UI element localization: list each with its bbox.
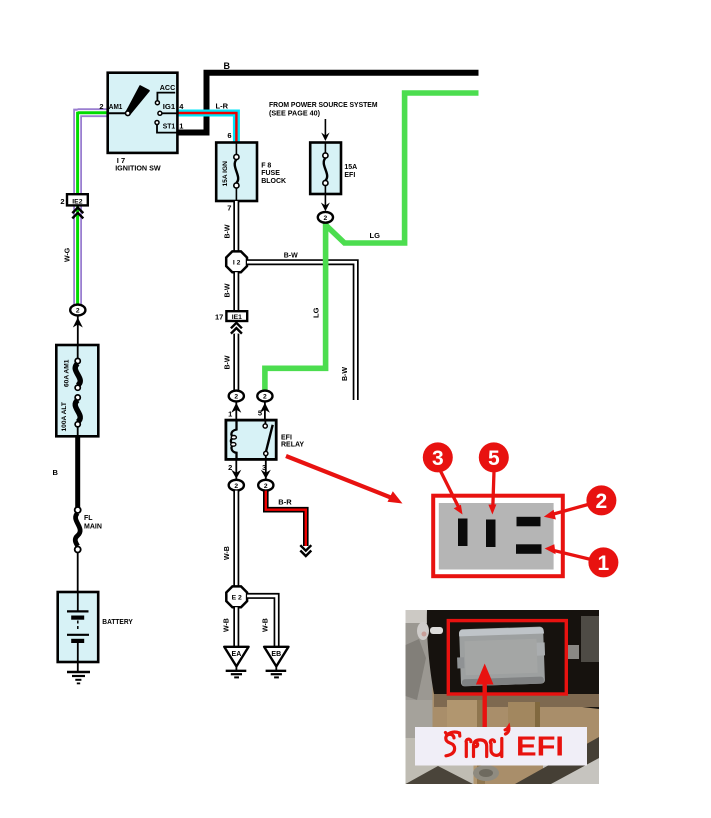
svg-text:2: 2 <box>324 215 328 222</box>
svg-text:EFI: EFI <box>281 434 292 441</box>
wire from 15A EFI down to junction <box>324 194 326 206</box>
wire LG green (junction down, across to relay pin 5) <box>265 222 326 392</box>
callout circle 1 <box>588 547 618 577</box>
relay pin5 junction ellipse 2 <box>257 391 272 402</box>
photo red frame around relay <box>448 621 566 694</box>
wire pin5 junction to relay <box>264 401 266 420</box>
relay pin diagram gray body <box>439 503 554 570</box>
svg-text:IE2: IE2 <box>72 199 82 206</box>
photo of engine bay <box>406 610 600 784</box>
connector IE2 box <box>67 194 88 205</box>
fusible link FL MAIN <box>75 507 81 513</box>
ground EB triangle <box>264 647 288 667</box>
wire W-B from pin2 junction to E2 <box>233 491 239 587</box>
svg-text:2: 2 <box>596 490 608 513</box>
callout circle 3 <box>423 442 453 472</box>
terminal ST1 contact and bracket <box>157 125 177 133</box>
photo white item left <box>417 622 429 640</box>
svg-text:2: 2 <box>234 483 238 490</box>
svg-text:MAIN: MAIN <box>84 523 102 530</box>
terminal IG1 contact <box>162 112 178 114</box>
svg-text:B-W: B-W <box>342 367 349 381</box>
svg-text:BLOCK: BLOCK <box>261 178 286 185</box>
svg-text:60A AM1: 60A AM1 <box>63 359 70 387</box>
junction E2 octagon <box>226 586 247 607</box>
relay coil <box>231 420 237 460</box>
callout line to pin 1 <box>551 550 591 560</box>
svg-text:2: 2 <box>76 308 80 315</box>
photo tan floor details <box>434 694 599 707</box>
thai sara e <box>466 739 471 756</box>
svg-text:15A IGN: 15A IGN <box>222 161 229 187</box>
wire AM1 stub inside switch <box>108 112 127 114</box>
fuse 15A IGN <box>235 143 237 155</box>
photo left gray column <box>406 610 433 738</box>
wire B-W from I2 down to IE1 <box>233 272 239 311</box>
svg-text:B-R: B-R <box>278 498 292 507</box>
wire B thick battery feed from ignition switch to top right <box>177 73 479 133</box>
svg-text:2: 2 <box>99 102 103 111</box>
ground EA symbol <box>235 666 237 670</box>
svg-text:15A: 15A <box>344 164 357 171</box>
photo black engine mass <box>427 610 599 709</box>
svg-text:2: 2 <box>263 394 267 401</box>
chevron arrow down at B-R end <box>300 545 311 556</box>
ground EA triangle <box>224 647 248 667</box>
arrow up into pin5 junction <box>260 403 270 413</box>
relay switch contact <box>264 420 266 424</box>
svg-text:I 2: I 2 <box>233 260 241 267</box>
arrow into 15A EFI fuse <box>324 119 326 136</box>
relay pin3 junction ellipse 2 <box>258 480 273 491</box>
terminal ACC bracket <box>157 93 175 101</box>
svg-text:B: B <box>53 468 59 477</box>
EFI relay box <box>226 420 276 459</box>
fusible link box 60A AM1 / 100A ALT <box>56 345 98 436</box>
arrow down into pin3 junction <box>261 470 271 479</box>
svg-text:2: 2 <box>264 483 268 490</box>
wire W-B from E2 right and down to EB ground <box>247 596 277 647</box>
pin 3 bar <box>458 519 468 547</box>
junction ellipse 2 (W-G to fusible link) <box>70 305 85 316</box>
arrow up into junction 2 <box>73 318 83 328</box>
arrow up into pin1 junction <box>231 403 241 413</box>
svg-text:EA: EA <box>232 651 242 658</box>
svg-text:IGNITION SW: IGNITION SW <box>115 164 161 173</box>
svg-text:B-W: B-W <box>224 283 231 297</box>
svg-text:17: 17 <box>215 312 223 321</box>
svg-text:3: 3 <box>432 447 444 470</box>
wire FL MAIN to battery <box>77 553 79 593</box>
callout line to pin 3 <box>441 471 460 509</box>
junction ellipse 2 (below 15A EFI) <box>318 212 333 223</box>
thai ro rua <box>446 734 455 756</box>
svg-text:W-G: W-G <box>65 247 72 262</box>
wire pin1 junction to relay <box>235 401 237 420</box>
svg-text:2: 2 <box>234 394 238 401</box>
connector IE1 box <box>226 311 247 321</box>
svg-text:ACC: ACC <box>160 83 176 92</box>
wire B-R from pin3 junction right and down <box>266 491 306 546</box>
svg-text:BATTERY: BATTERY <box>102 617 133 626</box>
svg-text:(SEE PAGE 40): (SEE PAGE 40) <box>269 110 320 117</box>
svg-text:2: 2 <box>228 463 232 472</box>
arrow down into pin2 junction <box>231 470 241 479</box>
svg-text:W-B: W-B <box>262 618 269 632</box>
svg-text:6: 6 <box>227 131 231 140</box>
wire W-G from AM1 down to connector (green with violet edges) <box>78 109 108 305</box>
photo label thai text and EFI <box>446 727 509 757</box>
pin 2 bar <box>517 517 541 527</box>
svg-text:IE1: IE1 <box>232 314 242 321</box>
wire B thick from fusible link to FL MAIN <box>75 436 80 507</box>
fuse 60A AM1 <box>77 346 79 361</box>
svg-text:ST1: ST1 <box>163 121 175 130</box>
wire relay pin2 to junction <box>235 460 237 480</box>
svg-text:FROM POWER SOURCE SYSTEM: FROM POWER SOURCE SYSTEM <box>269 102 378 109</box>
svg-text:IG1: IG1 <box>163 102 175 111</box>
battery cells <box>77 592 79 611</box>
photo relay body <box>456 626 546 686</box>
svg-text:5: 5 <box>258 409 262 418</box>
photo label box <box>415 727 587 766</box>
wire B-W from I2 right then down (to page edge) <box>247 262 356 400</box>
svg-text:B-W: B-W <box>224 224 231 238</box>
ignition switch box I7 <box>108 73 178 153</box>
battery box <box>58 592 98 662</box>
junction I2 octagon <box>226 251 247 272</box>
svg-text:1: 1 <box>179 121 183 130</box>
svg-text:E 2: E 2 <box>232 595 242 602</box>
wire relay pin3 to junction <box>265 460 267 480</box>
svg-text:FL: FL <box>84 515 93 522</box>
wire B-W from F8 to junction I2 <box>233 201 239 252</box>
wire LG green (junction to right riser and top) <box>326 93 478 243</box>
red annotation arrow from relay to pin diagram <box>286 456 392 498</box>
svg-text:FUSE: FUSE <box>261 170 280 177</box>
thai yo yak <box>490 739 501 757</box>
terminal ACC contact <box>155 101 159 105</box>
callout circle 5 <box>479 442 509 472</box>
ground EB symbol <box>275 666 277 670</box>
svg-text:RELAY: RELAY <box>281 442 304 449</box>
ignition switch pivot <box>126 111 131 116</box>
connector IE2 chevron <box>72 208 83 219</box>
ground below battery <box>77 662 79 672</box>
svg-text:EB: EB <box>271 651 281 658</box>
photo red arrow <box>483 680 487 728</box>
svg-text:2: 2 <box>60 197 64 206</box>
thai thanthakhat <box>505 727 509 734</box>
svg-text:EFI: EFI <box>516 731 564 762</box>
svg-text:LG: LG <box>311 307 320 318</box>
svg-text:B: B <box>224 61 231 71</box>
ignition switch lever <box>126 86 149 114</box>
svg-text:1: 1 <box>228 410 232 419</box>
svg-text:W-B: W-B <box>224 618 231 632</box>
relay pin1 junction ellipse 2 <box>229 391 244 402</box>
svg-text:B-W: B-W <box>284 253 298 260</box>
svg-text:7: 7 <box>227 204 231 213</box>
svg-text:W-B: W-B <box>224 546 231 560</box>
thai lo ling <box>474 740 487 757</box>
wire B-W from IE1 to relay pin1 junction <box>233 334 239 391</box>
svg-text:F 8: F 8 <box>261 163 271 170</box>
svg-text:LG: LG <box>370 231 381 240</box>
relay pin diagram red frame <box>433 496 563 577</box>
svg-text:100A ALT: 100A ALT <box>61 402 68 431</box>
svg-text:AM1: AM1 <box>109 102 123 111</box>
arrow down into junction <box>321 203 330 212</box>
fuse 15A EFI box <box>310 143 341 195</box>
callout circle 2 <box>586 485 616 515</box>
svg-text:EFI: EFI <box>344 172 355 179</box>
callout line to pin 2 <box>550 505 588 516</box>
svg-text:5: 5 <box>488 447 500 470</box>
svg-text:B-W: B-W <box>224 355 231 369</box>
callout line to pin 5 <box>493 471 494 508</box>
photo bottom concrete <box>406 738 474 784</box>
fuse 100A ALT <box>75 395 80 400</box>
wire from junction down to fusible link box <box>77 316 79 347</box>
connector IE1 chevron <box>231 323 242 334</box>
photo gray tab right of frame <box>567 645 579 659</box>
thai sara ii <box>446 732 460 736</box>
fuse block F8 box <box>216 143 257 202</box>
wire W-B from E2 down to EA ground <box>233 607 239 647</box>
svg-text:1: 1 <box>598 552 610 575</box>
pin 5 bar <box>486 520 496 548</box>
svg-text:L-R: L-R <box>216 102 229 111</box>
relay pin2 junction ellipse 2 <box>229 480 244 491</box>
wire L-R from IG1 to fuse block (cyan with red core) <box>177 113 236 143</box>
pin 1 bar <box>516 544 542 554</box>
